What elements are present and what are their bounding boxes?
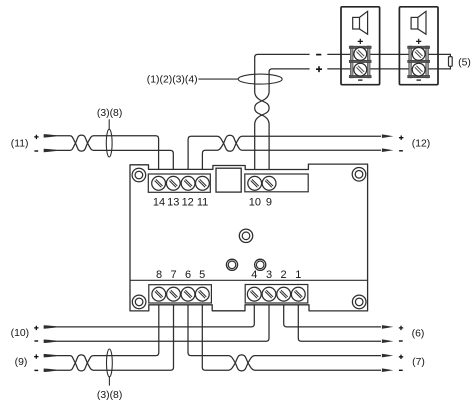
svg-text:(5): (5) xyxy=(458,57,471,68)
svg-text:(11): (11) xyxy=(11,138,29,149)
svg-text:9: 9 xyxy=(266,196,272,208)
svg-text:(3)(8): (3)(8) xyxy=(97,390,122,401)
svg-text:12: 12 xyxy=(182,196,194,208)
svg-text:14: 14 xyxy=(153,196,165,208)
svg-text:1: 1 xyxy=(295,269,301,281)
svg-text:(3)(8): (3)(8) xyxy=(97,108,122,119)
svg-text:10: 10 xyxy=(249,196,261,208)
svg-text:4: 4 xyxy=(251,269,257,281)
svg-text:(6): (6) xyxy=(412,329,425,340)
svg-text:(9): (9) xyxy=(15,357,28,368)
svg-text:7: 7 xyxy=(170,269,176,281)
svg-text:(1)(2)(3)(4): (1)(2)(3)(4) xyxy=(147,75,198,86)
svg-text:8: 8 xyxy=(156,269,162,281)
svg-text:6: 6 xyxy=(185,269,191,281)
svg-text:(12): (12) xyxy=(412,139,430,150)
svg-text:2: 2 xyxy=(281,269,287,281)
svg-text:(7): (7) xyxy=(412,357,425,368)
svg-text:(10): (10) xyxy=(11,328,29,339)
svg-text:5: 5 xyxy=(199,269,205,281)
svg-text:3: 3 xyxy=(266,269,272,281)
svg-text:13: 13 xyxy=(167,196,179,208)
svg-text:11: 11 xyxy=(197,196,208,208)
